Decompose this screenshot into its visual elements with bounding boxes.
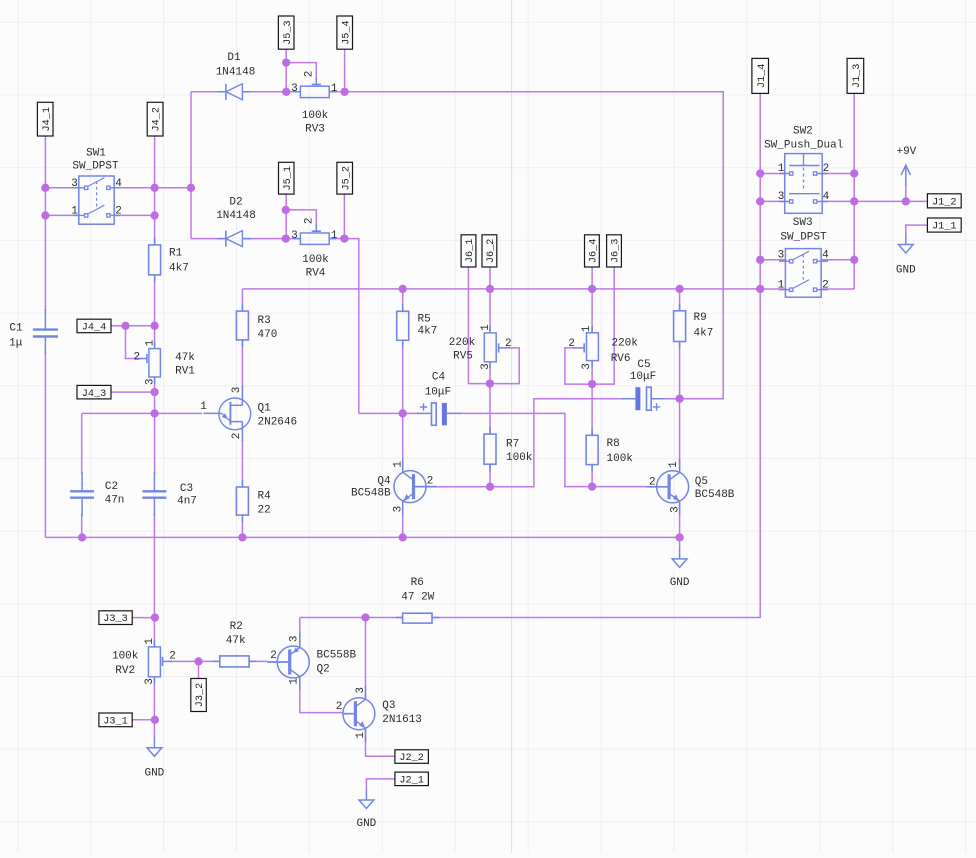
wire SW1 row A — [45, 187, 191, 189]
svg-text:10μF: 10μF — [630, 371, 656, 383]
wire J6_4 to RV6 — [591, 267, 593, 333]
svg-text:4: 4 — [822, 250, 829, 262]
junction 13 — [150, 322, 158, 330]
svg-text:1μ: 1μ — [9, 337, 23, 349]
svg-text:3: 3 — [71, 178, 78, 190]
svg-text:3: 3 — [144, 678, 156, 685]
wire J3_3 link — [132, 617, 154, 619]
svg-text:1N4148: 1N4148 — [216, 67, 256, 79]
svg-text:3: 3 — [581, 363, 593, 370]
junction 31 — [756, 169, 764, 177]
svg-text:1: 1 — [778, 280, 785, 292]
svg-text:2: 2 — [270, 650, 277, 662]
potentiometer RV6 — [591, 326, 593, 367]
svg-text:2: 2 — [115, 206, 122, 218]
wire Q5 base — [592, 486, 647, 488]
svg-text:R2: R2 — [230, 621, 243, 633]
svg-text:BC548B: BC548B — [351, 487, 391, 499]
wire ground bus — [45, 536, 679, 538]
svg-text:2: 2 — [505, 338, 512, 350]
wire R6 left row — [300, 617, 403, 619]
power +9V — [905, 165, 907, 186]
wire Q4 emitter — [402, 503, 404, 537]
svg-text:GND: GND — [670, 577, 690, 589]
wire RV6 wiper branch — [565, 348, 592, 384]
junction 18 — [588, 285, 596, 293]
svg-text:470: 470 — [258, 329, 278, 341]
resistor R4 — [241, 480, 243, 522]
svg-text:3: 3 — [393, 506, 405, 513]
wire R4 bottom — [241, 515, 243, 537]
wire SW2 row 1 — [760, 173, 854, 175]
capacitor C2 — [81, 472, 83, 516]
label J6_2 — [482, 235, 497, 267]
svg-text:J4_4: J4_4 — [82, 323, 106, 334]
junction 14 — [150, 388, 158, 396]
svg-text:1: 1 — [71, 206, 78, 218]
svg-text:4: 4 — [115, 178, 122, 190]
svg-text:2: 2 — [649, 477, 656, 489]
svg-text:3: 3 — [355, 687, 367, 694]
junction 5 — [187, 184, 195, 192]
wire D riser — [190, 92, 192, 239]
svg-text:1: 1 — [144, 638, 156, 645]
resistor R9 — [679, 304, 681, 349]
label J4_4 — [77, 319, 111, 333]
svg-text:J4_3: J4_3 — [82, 389, 106, 400]
wire R8 to Q5 base node — [591, 465, 593, 487]
label J2_2 — [395, 750, 429, 764]
wire Q3 emitter to J2_2 — [366, 729, 395, 756]
wire J1_4 riser / R6 right — [432, 93, 760, 617]
wire J5_1 riser — [285, 194, 287, 239]
junction 19 — [675, 285, 683, 293]
potentiometer RV2 — [153, 640, 155, 683]
junction 15 — [150, 409, 158, 417]
wire SW3 row 2 — [760, 288, 854, 290]
wire V+ bus — [242, 288, 760, 290]
label J3_3 — [99, 611, 132, 625]
svg-text:4n7: 4n7 — [177, 496, 197, 508]
label J1_2 — [927, 194, 961, 208]
ground at J1_1 — [898, 234, 913, 254]
transistor Q5 — [657, 471, 689, 503]
svg-text:RV6: RV6 — [611, 353, 631, 365]
ground at J2_1 — [359, 789, 374, 809]
svg-text:Q5: Q5 — [695, 476, 708, 488]
svg-text:Q2: Q2 — [317, 664, 330, 676]
wire Q4 collector — [402, 413, 404, 470]
junction 32 — [850, 169, 858, 177]
wire RV2 wiper to R2 — [170, 660, 220, 662]
wire C3 to RV2 — [153, 514, 155, 647]
wire RV5 wiper branch — [490, 348, 519, 384]
svg-text:R8: R8 — [607, 438, 620, 450]
capacitor C4 — [417, 412, 461, 414]
wire SW3 row 1 — [760, 259, 854, 261]
svg-text:47k: 47k — [175, 352, 195, 364]
label J4_1 — [37, 102, 53, 136]
svg-text:1: 1 — [668, 461, 680, 468]
label J6_4 — [585, 235, 600, 267]
svg-text:4k7: 4k7 — [418, 326, 438, 338]
wire Q1 to R4 — [241, 439, 243, 487]
switch SW3 — [785, 249, 821, 298]
svg-text:Q3: Q3 — [382, 700, 395, 712]
wire C1 to ground bus — [44, 352, 46, 537]
wire R9 top — [679, 289, 681, 311]
wire J5_2 riser — [343, 194, 345, 239]
svg-text:J6_4: J6_4 — [589, 239, 600, 263]
junction 17 — [486, 285, 494, 293]
svg-text:SW3: SW3 — [793, 217, 813, 229]
wire J3_1 link — [132, 719, 154, 721]
wire RV4 to R5 node — [329, 239, 403, 414]
wire Q1 emitter row — [82, 412, 202, 414]
svg-text:GND: GND — [896, 264, 916, 276]
svg-text:2N1613: 2N1613 — [382, 714, 422, 726]
wire RV6 to R8 — [591, 360, 593, 435]
junction 29 — [399, 533, 407, 541]
junction 16 — [399, 285, 407, 293]
svg-text:Q1: Q1 — [258, 402, 272, 414]
svg-text:C2: C2 — [105, 481, 118, 493]
wire Q2 emitter riser — [299, 618, 301, 646]
junction 26 — [588, 482, 596, 490]
wire +9V lead — [905, 184, 907, 201]
wire Q3 collector riser — [365, 618, 367, 699]
wire RV4 wiper branch — [286, 210, 316, 226]
svg-text:D1: D1 — [227, 52, 241, 64]
svg-text:R3: R3 — [258, 315, 271, 327]
wire RV3 to Q5 collector node — [329, 92, 723, 399]
svg-text:C1: C1 — [9, 322, 23, 334]
svg-text:RV4: RV4 — [306, 267, 326, 279]
svg-text:GND: GND — [356, 818, 376, 830]
transistor Q1 — [204, 412, 222, 414]
svg-text:47k: 47k — [226, 635, 246, 647]
wire C2 bottom — [81, 514, 83, 537]
wire J6_3 riser — [592, 267, 614, 384]
svg-text:J2_1: J2_1 — [399, 776, 423, 787]
svg-text:R6: R6 — [411, 577, 424, 589]
svg-text:2: 2 — [336, 701, 343, 713]
wire RV1 to C3 — [154, 377, 156, 474]
svg-text:C3: C3 — [180, 483, 193, 495]
svg-text:J2_2: J2_2 — [399, 753, 423, 764]
svg-text:220k: 220k — [449, 337, 476, 349]
svg-text:J1_2: J1_2 — [932, 198, 956, 209]
wire J5_4 riser — [344, 49, 346, 92]
junction 8 — [340, 88, 348, 96]
wire J2_1 to GND — [366, 779, 395, 790]
capacitor C1 — [44, 309, 46, 354]
svg-text:4k7: 4k7 — [169, 263, 189, 275]
svg-text:J4_1: J4_1 — [42, 107, 53, 131]
svg-text:J5_4: J5_4 — [341, 20, 352, 44]
wire J6_2 to RV5 — [489, 267, 491, 333]
junction 33 — [756, 197, 764, 205]
svg-text:J1_4: J1_4 — [757, 64, 768, 88]
wire J4_3 link — [111, 391, 155, 393]
wire J3_2 drop — [198, 661, 200, 678]
switch SW2 — [785, 154, 823, 214]
svg-text:100k: 100k — [506, 452, 533, 464]
label J1_3 — [847, 58, 864, 93]
svg-text:2: 2 — [427, 476, 434, 488]
wire R3 to Q1 — [241, 340, 243, 388]
wire Q5 collector — [679, 399, 681, 470]
svg-text:1: 1 — [331, 230, 338, 242]
svg-text:47n: 47n — [105, 495, 125, 507]
svg-text:100k: 100k — [112, 650, 139, 662]
junction 36 — [756, 256, 764, 264]
svg-text:J5_2: J5_2 — [341, 166, 352, 190]
junction 38 — [151, 613, 159, 621]
svg-text:47 2W: 47 2W — [401, 591, 434, 603]
svg-text:SW_Push_Dual: SW_Push_Dual — [764, 140, 843, 152]
svg-text:3: 3 — [145, 378, 157, 385]
wire Q2 collector to Q3 base — [300, 679, 343, 713]
junction 30 — [675, 533, 683, 541]
potentiometer RV1 — [154, 342, 156, 384]
svg-text:1: 1 — [289, 678, 301, 685]
svg-text:SW_DPST: SW_DPST — [72, 160, 119, 172]
junction 22 — [588, 380, 596, 388]
junction 2 — [41, 211, 49, 219]
junction 1 — [41, 184, 49, 192]
svg-text:1: 1 — [200, 401, 207, 413]
svg-text:J1_3: J1_3 — [852, 64, 863, 88]
ground at Q5 — [679, 537, 681, 548]
svg-text:2: 2 — [303, 217, 315, 224]
label J6_1 — [461, 235, 476, 267]
svg-text:RV1: RV1 — [175, 366, 195, 378]
svg-text:J5_1: J5_1 — [283, 166, 294, 190]
svg-text:2: 2 — [303, 71, 315, 78]
svg-text:3: 3 — [291, 83, 298, 95]
wire J4_2 to R1 — [154, 136, 156, 246]
svg-text:1: 1 — [393, 461, 405, 468]
junction 20 — [756, 285, 764, 293]
junction 24 — [675, 395, 683, 403]
capacitor C5 — [622, 398, 665, 400]
svg-text:J4_2: J4_2 — [152, 107, 163, 131]
wire J5_3 riser — [285, 49, 287, 92]
transistor Q2 — [277, 646, 309, 678]
wire RV3 wiper branch — [286, 63, 316, 80]
wire C4 left lead — [403, 412, 419, 414]
wire J4_4 link — [111, 325, 155, 327]
diode D1 — [218, 91, 251, 93]
label J6_3 — [607, 235, 622, 267]
svg-text:3: 3 — [670, 506, 682, 513]
wire C5 right lead — [663, 398, 680, 400]
junction 4 — [150, 211, 158, 219]
svg-text:C5: C5 — [637, 359, 650, 371]
wire RV5 to R7 — [489, 361, 491, 434]
svg-text:D2: D2 — [229, 196, 242, 208]
wire R5 top — [402, 289, 404, 311]
potentiometer RV5 — [489, 326, 491, 368]
svg-text:3: 3 — [289, 635, 301, 642]
wire R9 to C5 node — [679, 342, 681, 399]
svg-text:RV2: RV2 — [115, 665, 135, 677]
label J1_1 — [927, 218, 961, 232]
svg-text:3: 3 — [778, 191, 785, 203]
wire R3 top — [241, 289, 243, 311]
svg-text:J5_3: J5_3 — [283, 20, 294, 44]
svg-text:100k: 100k — [302, 110, 329, 122]
wire RV1 wiper branch — [126, 326, 142, 359]
svg-text:3: 3 — [480, 363, 492, 370]
junction 10 — [282, 234, 290, 242]
transistor Q4 — [394, 471, 426, 503]
svg-text:2: 2 — [169, 650, 176, 662]
svg-text:RV5: RV5 — [453, 351, 473, 363]
wire SW1 row B — [45, 214, 154, 216]
wire J6_1 riser — [468, 267, 490, 384]
label J5_1 — [279, 162, 295, 194]
label J5_3 — [278, 16, 294, 49]
svg-text:2N2646: 2N2646 — [258, 416, 298, 428]
wire D2 row — [191, 238, 301, 240]
junction 35 — [902, 197, 910, 205]
svg-text:100k: 100k — [607, 453, 634, 465]
wire C2 top — [81, 413, 83, 474]
resistor R7 — [489, 427, 491, 471]
svg-text:1: 1 — [355, 732, 367, 739]
svg-text:1: 1 — [581, 325, 593, 332]
svg-text:220k: 220k — [611, 338, 638, 350]
svg-text:C4: C4 — [432, 372, 446, 384]
svg-text:BC548B: BC548B — [695, 489, 735, 501]
svg-text:4: 4 — [823, 191, 830, 203]
resistor R6 — [396, 617, 439, 619]
svg-text:1: 1 — [480, 324, 492, 331]
wire R2 to Q2 base — [249, 660, 267, 662]
label J4_3 — [77, 385, 111, 399]
label J4_2 — [147, 102, 163, 136]
svg-text:1: 1 — [778, 163, 785, 175]
svg-text:2: 2 — [822, 280, 829, 292]
junction 21 — [486, 379, 494, 387]
resistor R1 — [154, 238, 156, 282]
junction 28 — [238, 533, 246, 541]
svg-text:4k7: 4k7 — [694, 328, 714, 340]
svg-text:BC558B: BC558B — [317, 649, 357, 661]
ground at RV2 — [147, 737, 162, 757]
svg-text:3: 3 — [778, 250, 785, 262]
label J3_1 — [99, 713, 132, 727]
wire R5 to C4 node — [402, 340, 404, 413]
switch SW1 — [79, 176, 114, 224]
junction 40 — [194, 657, 202, 665]
svg-text:J3_1: J3_1 — [103, 717, 127, 728]
svg-text:J6_1: J6_1 — [465, 239, 476, 263]
svg-text:2: 2 — [133, 352, 140, 364]
wire R7 to Q4 base — [437, 464, 490, 487]
svg-text:J3_3: J3_3 — [103, 614, 127, 625]
junction 41 — [151, 716, 159, 724]
wire R1 to RV1 — [154, 275, 156, 349]
svg-text:R7: R7 — [506, 438, 519, 450]
junction 37 — [850, 256, 858, 264]
svg-text:100k: 100k — [302, 254, 329, 266]
resistor R3 — [241, 304, 243, 347]
svg-text:R9: R9 — [694, 312, 707, 324]
label J5_2 — [337, 162, 353, 194]
junction 25 — [486, 483, 494, 491]
wire J4_1 to C1 — [44, 136, 46, 311]
svg-text:SW_DPST: SW_DPST — [780, 232, 827, 244]
resistor R8 — [591, 428, 593, 471]
junction 34 — [850, 197, 858, 205]
potentiometer RV3 — [294, 91, 337, 93]
junction 3 — [150, 184, 158, 192]
svg-text:22: 22 — [258, 505, 271, 517]
svg-text:R5: R5 — [418, 314, 431, 326]
wire D1 row — [191, 91, 301, 93]
svg-text:J6_3: J6_3 — [611, 239, 622, 263]
junction 39 — [361, 613, 369, 621]
junction 9 — [282, 206, 290, 214]
junction 12 — [121, 322, 129, 330]
wire Q4 base node to C5 — [490, 399, 624, 487]
wire J1_3 riser — [853, 93, 855, 289]
junction 11 — [340, 234, 348, 242]
potentiometer RV4 — [294, 238, 337, 240]
svg-text:R4: R4 — [258, 491, 272, 503]
wire Q5 emitter to GND — [679, 503, 681, 537]
junction 7 — [282, 88, 290, 96]
label J5_4 — [337, 16, 353, 49]
svg-text:10μF: 10μF — [425, 386, 451, 398]
svg-text:2: 2 — [568, 338, 575, 350]
svg-text:Q4: Q4 — [377, 476, 391, 488]
transistor Q3 — [343, 698, 375, 730]
svg-text:J3_2: J3_2 — [195, 683, 206, 707]
resistor R5 — [402, 304, 404, 347]
junction 27 — [78, 533, 86, 541]
wire RV2 to GND — [153, 677, 155, 737]
svg-text:SW2: SW2 — [793, 125, 813, 137]
wire J1_1 to GND — [906, 225, 928, 234]
svg-text:3: 3 — [291, 230, 298, 242]
svg-text:RV3: RV3 — [305, 124, 325, 136]
svg-text:3: 3 — [231, 387, 243, 394]
svg-text:J6_2: J6_2 — [486, 239, 497, 263]
resistor R2 — [213, 660, 256, 662]
wire C4 to Q5 base — [459, 413, 592, 486]
svg-text:+9V: +9V — [896, 146, 916, 158]
svg-text:1: 1 — [331, 83, 338, 95]
svg-text:J1_1: J1_1 — [932, 222, 956, 233]
svg-text:GND: GND — [144, 767, 164, 779]
svg-text:2: 2 — [231, 433, 243, 440]
svg-text:1N4148: 1N4148 — [216, 210, 256, 222]
capacitor C3 — [153, 472, 155, 516]
svg-text:2: 2 — [823, 163, 830, 175]
svg-text:SW1: SW1 — [86, 147, 106, 159]
junction 23 — [399, 409, 407, 417]
junction 6 — [282, 58, 290, 66]
label J3_2 — [191, 679, 207, 712]
label J1_4 — [752, 58, 769, 93]
wire SW2 row 2 to J1_2 — [760, 200, 927, 202]
svg-text:1: 1 — [145, 339, 157, 346]
label J2_1 — [395, 772, 429, 786]
